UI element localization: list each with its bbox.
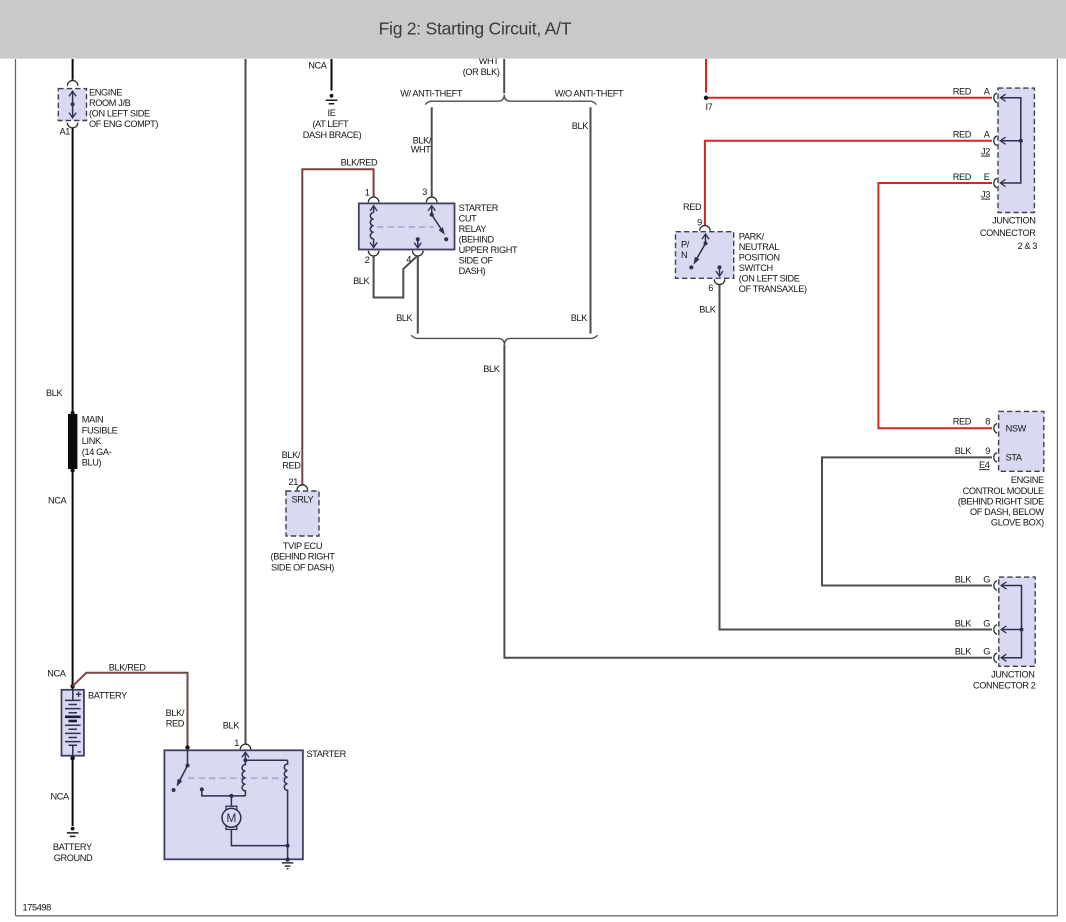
wire BLK merged to junction connector 2	[483, 345, 992, 658]
wire RED junction connector pin E to ECM pin 8	[878, 172, 992, 428]
svg-text:STARTER: STARTER	[307, 749, 347, 759]
junction connector 2	[973, 577, 1036, 691]
svg-text:E4: E4	[979, 460, 990, 470]
svg-text:BLK/: BLK/	[166, 708, 185, 718]
svg-text:RED: RED	[166, 718, 185, 728]
brace anti-theft merge	[411, 335, 597, 345]
svg-text:POSITION: POSITION	[739, 252, 780, 262]
svg-text:SIDE OF: SIDE OF	[459, 256, 494, 266]
starter	[164, 745, 346, 859]
svg-text:NSW: NSW	[1006, 423, 1027, 433]
svg-text:BLK: BLK	[955, 618, 972, 628]
pin 1 relay arc	[365, 188, 379, 203]
wire BLK w/o anti-theft branch	[571, 107, 591, 333]
svg-text:NCA: NCA	[51, 792, 71, 802]
svg-text:OF TRANSAXLE): OF TRANSAXLE)	[739, 284, 807, 294]
svg-text:1: 1	[234, 738, 239, 748]
svg-text:J2: J2	[981, 147, 990, 157]
wire BLK feed to starter pin 1	[223, 59, 246, 744]
svg-text:6: 6	[708, 283, 713, 293]
svg-text:BLK: BLK	[396, 313, 413, 323]
wire battery feed from top	[72, 59, 74, 80]
pin 2 relay arc	[365, 251, 379, 265]
svg-text:BLK: BLK	[483, 364, 500, 374]
svg-text:BLK: BLK	[955, 574, 972, 584]
svg-text:BLK/RED: BLK/RED	[109, 663, 146, 673]
svg-text:G: G	[983, 618, 990, 628]
svg-text:ENGINE: ENGINE	[1011, 475, 1044, 485]
svg-text:SRLY: SRLY	[292, 495, 314, 505]
svg-text:E: E	[984, 172, 990, 182]
battery	[62, 686, 128, 760]
svg-text:2: 2	[365, 255, 370, 265]
svg-text:SIDE OF DASH): SIDE OF DASH)	[271, 562, 334, 572]
svg-text:PARK/: PARK/	[739, 231, 765, 241]
starter ground	[282, 857, 294, 868]
svg-text:W/ ANTI-THEFT: W/ ANTI-THEFT	[400, 88, 463, 98]
svg-text:21: 21	[289, 477, 299, 487]
svg-text:N: N	[681, 250, 687, 260]
svg-text:IE: IE	[328, 108, 336, 118]
svg-text:175498: 175498	[23, 902, 52, 912]
svg-text:BLK: BLK	[571, 313, 588, 323]
node battery positive junction	[70, 684, 74, 688]
svg-text:OF DASH, BELOW: OF DASH, BELOW	[970, 507, 1045, 517]
svg-text:CUT: CUT	[459, 214, 478, 224]
wire RED I7 to junction connector pin A	[708, 87, 992, 98]
battery ground symbol	[53, 827, 93, 863]
svg-text:MAIN: MAIN	[82, 415, 103, 425]
svg-text:GROUND: GROUND	[54, 853, 93, 863]
svg-text:ROOM J/B: ROOM J/B	[89, 98, 131, 108]
park/neutral position switch	[676, 231, 808, 294]
svg-text:TVIP ECU: TVIP ECU	[283, 541, 322, 551]
wire RED feeder	[705, 59, 707, 93]
svg-text:2 & 3: 2 & 3	[1017, 241, 1037, 251]
svg-text:RED: RED	[953, 130, 972, 140]
engine control module	[958, 411, 1045, 527]
svg-text:W/O ANTI-THEFT: W/O ANTI-THEFT	[555, 88, 624, 98]
node I7	[704, 96, 713, 113]
svg-text:DASH): DASH)	[459, 266, 486, 276]
svg-text:(BEHIND RIGHT: (BEHIND RIGHT	[271, 552, 336, 562]
wire WHT (OR BLK) feeder	[463, 56, 504, 94]
svg-text:1: 1	[365, 188, 370, 198]
svg-text:NCA: NCA	[48, 496, 68, 506]
svg-text:(AT LEFT: (AT LEFT	[312, 119, 349, 129]
svg-text:ENGINE: ENGINE	[89, 87, 122, 97]
pin 3 relay arc	[422, 187, 437, 202]
svg-text:BLK: BLK	[699, 304, 716, 314]
svg-text:BATTERY: BATTERY	[53, 842, 92, 852]
wire BLK/RED battery to starter switch	[73, 663, 188, 746]
svg-text:(BEHIND: (BEHIND	[459, 235, 495, 245]
pin 4 relay arc	[406, 251, 423, 265]
svg-text:CONNECTOR 2: CONNECTOR 2	[973, 681, 1036, 691]
wire BLK relay pin4 down to brace	[396, 256, 418, 333]
svg-text:LINK: LINK	[82, 436, 102, 446]
svg-text:UPPER RIGHT: UPPER RIGHT	[459, 245, 518, 255]
svg-text:RED: RED	[953, 417, 972, 427]
svg-text:(OR BLK): (OR BLK)	[463, 67, 500, 77]
svg-text:I7: I7	[706, 102, 713, 112]
svg-text:BLK: BLK	[955, 446, 972, 456]
brace anti-theft split	[400, 88, 624, 104]
wire BLK/RED relay pin1 to SRLY	[282, 158, 378, 487]
svg-text:NCA: NCA	[308, 60, 328, 70]
svg-text:BLK: BLK	[955, 647, 972, 657]
junction block ENGINE ROOM J/B A1	[58, 87, 158, 128]
wire NCA fusible link to battery	[47, 471, 72, 685]
svg-text:STARTER: STARTER	[459, 203, 499, 213]
svg-text:P/: P/	[681, 240, 690, 250]
svg-text:CONTROL MODULE: CONTROL MODULE	[963, 486, 1044, 496]
svg-text:(14 GA-: (14 GA-	[82, 447, 112, 457]
figure number	[23, 902, 52, 912]
svg-text:A1: A1	[60, 127, 71, 137]
svg-text:M: M	[226, 811, 236, 825]
svg-text:FUSIBLE: FUSIBLE	[82, 425, 118, 435]
svg-text:GLOVE BOX): GLOVE BOX)	[991, 518, 1044, 528]
wire BLK/WHT to relay pin 3	[411, 107, 432, 197]
svg-text:3: 3	[422, 187, 427, 197]
pin 9 P/N arc	[700, 225, 711, 230]
wire BLK relay pin2 to pin4 jog	[353, 256, 416, 297]
junction connector 2 & 3	[980, 88, 1037, 251]
svg-text:JUNCTION: JUNCTION	[991, 669, 1034, 679]
pin 6 P/N arc	[708, 279, 725, 293]
svg-text:OF ENG COMPT): OF ENG COMPT)	[89, 119, 158, 129]
svg-text:G: G	[983, 647, 990, 657]
svg-text:WHT: WHT	[411, 144, 432, 154]
svg-text:CONNECTOR: CONNECTOR	[980, 228, 1036, 238]
svg-text:G: G	[983, 574, 990, 584]
main fusible link (14 GA-BLU)	[68, 411, 118, 473]
wire NCA battery to ground	[51, 758, 73, 826]
svg-text:STA: STA	[1006, 452, 1023, 462]
svg-text:BLU): BLU)	[82, 458, 102, 468]
title bar	[0, 0, 1066, 59]
svg-text:(BEHIND RIGHT SIDE: (BEHIND RIGHT SIDE	[958, 496, 1044, 506]
svg-text:BLK: BLK	[46, 388, 63, 398]
svg-text:JUNCTION: JUNCTION	[992, 215, 1035, 225]
svg-text:8: 8	[985, 417, 990, 427]
svg-text:RED: RED	[683, 202, 702, 212]
svg-text:DASH BRACE): DASH BRACE)	[303, 130, 362, 140]
connector pin A1 top arc	[67, 81, 78, 86]
svg-text:RED: RED	[953, 172, 972, 182]
svg-text:RED: RED	[953, 87, 972, 97]
ground IE (AT LEFT DASH BRACE)	[303, 94, 362, 140]
svg-text:J3: J3	[981, 190, 990, 200]
pin 1 starter arc	[234, 738, 251, 749]
wire BLK merged labels at junction connector 2 bottom pin	[955, 647, 990, 657]
wire BLK ECM STA to junction connector 2	[822, 446, 992, 586]
svg-text:NEUTRAL: NEUTRAL	[739, 242, 779, 252]
connector pin A1 bottom arc	[60, 123, 78, 137]
svg-text:(ON LEFT SIDE: (ON LEFT SIDE	[739, 273, 800, 283]
svg-text:Fig 2: Starting Circuit, A/T: Fig 2: Starting Circuit, A/T	[379, 19, 572, 39]
svg-text:NCA: NCA	[47, 668, 67, 678]
starter cut relay	[359, 203, 518, 276]
svg-text:BLK/RED: BLK/RED	[341, 158, 378, 168]
svg-text:RELAY: RELAY	[459, 224, 487, 234]
svg-text:BLK: BLK	[353, 276, 370, 286]
wire BLK P/N pin6 to junction connector 2	[699, 285, 992, 630]
svg-text:9: 9	[985, 446, 990, 456]
svg-text:BLK: BLK	[572, 121, 589, 131]
svg-text:BLK: BLK	[223, 720, 240, 730]
svg-text:BLK/: BLK/	[282, 450, 301, 460]
svg-text:SWITCH: SWITCH	[739, 263, 773, 273]
svg-text:BATTERY: BATTERY	[88, 691, 127, 701]
wire RED junction connector pin A to P/N switch pin 9	[683, 130, 992, 228]
TVIP ECU SRLY	[271, 485, 336, 573]
wire NCA to IE ground	[308, 59, 331, 91]
wire BLK engine JB to fusible link	[46, 128, 73, 413]
svg-text:RED: RED	[282, 460, 301, 470]
svg-text:(ON LEFT SIDE: (ON LEFT SIDE	[89, 108, 150, 118]
